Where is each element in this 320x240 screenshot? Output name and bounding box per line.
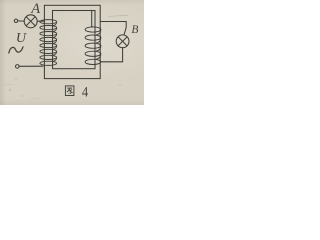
svg-text:A: A	[30, 1, 40, 17]
svg-text:B: B	[131, 24, 138, 36]
svg-text:4: 4	[82, 83, 88, 99]
svg-text:U: U	[16, 31, 27, 46]
